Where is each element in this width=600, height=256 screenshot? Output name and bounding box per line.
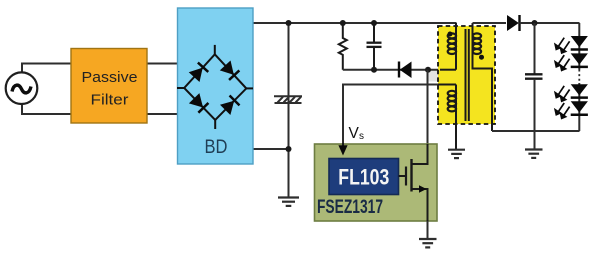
wire: passive filter to BD (bottom)	[147, 113, 178, 115]
LED3	[571, 84, 588, 97]
node: dot C top	[371, 20, 377, 26]
svg-text:Passive: Passive	[82, 70, 138, 86]
MOSFET gate bar	[405, 167, 407, 186]
earth ground below BD vertical	[278, 198, 299, 206]
node: junction dot BD return	[286, 146, 292, 152]
wire: passive filter to BD (top)	[147, 63, 178, 65]
snubber capacitor C1	[373, 23, 375, 42]
primary bottom lead inside box	[440, 69, 456, 71]
transformer core	[465, 29, 467, 121]
wire: snubber bottom rail to clamp diode to primary bottom	[343, 69, 456, 71]
node: dot C bottom	[371, 67, 377, 73]
svg-text:FSEZ1317: FSEZ1317	[317, 197, 383, 218]
FL103 sub-block	[329, 159, 399, 195]
wire: source to ground	[427, 221, 429, 239]
earth ground below aux winding	[448, 150, 465, 158]
MOSFET drain lead	[412, 144, 428, 164]
passive filter block	[71, 49, 147, 124]
node: dot R top	[340, 20, 346, 26]
LED1 light arrows	[555, 38, 569, 53]
svg-text:s: s	[359, 131, 364, 142]
bridge diamond	[184, 54, 246, 120]
bridge rectifier block BD	[178, 8, 254, 164]
wire: chassis/earth vertical from top rail	[288, 23, 290, 198]
bridge diode D4 (bottom-right, points NE)	[220, 95, 240, 115]
secondary winding spine + bottom lead	[473, 23, 493, 131]
wire: BD bottom return to vertical	[253, 148, 289, 150]
aux top lead inside box	[438, 84, 456, 86]
primary winding loops	[448, 33, 456, 54]
gray artifact patch near node SW	[427, 70, 441, 82]
dashed continuation between LED groups	[578, 70, 580, 84]
aux winding spine + ground lead	[455, 85, 457, 150]
LED2 light arrows	[555, 55, 569, 70]
svg-text:BD: BD	[205, 137, 228, 158]
bridge terminal stubs	[177, 45, 253, 129]
snubber resistor R1 lead + zigzag	[339, 23, 347, 70]
wire: AC source to passive filter (bottom)	[22, 104, 71, 114]
Vs arrowhead into controller	[342, 143, 344, 148]
chassis ground symbol	[274, 96, 302, 103]
output diode D6 (points right)	[507, 15, 519, 31]
node: dot at drain branch	[425, 67, 431, 73]
MOSFET source arrow	[419, 185, 427, 193]
wire: diode to LED string top	[520, 22, 580, 24]
LED4 light arrows	[555, 103, 569, 118]
secondary winding loops	[473, 33, 481, 54]
wire: Vs feed from aux winding	[343, 85, 456, 147]
controller block U1 FSEZ1317	[315, 144, 438, 221]
earth ground below MOSFET source	[419, 239, 437, 247]
node: dot output cap branch	[532, 20, 538, 26]
wire: AC source to passive filter (top)	[22, 64, 71, 73]
primary phase dot	[448, 32, 453, 37]
clamp diode D5 (points left)	[400, 62, 412, 79]
svg-text:Filter: Filter	[91, 93, 129, 109]
primary winding spine	[455, 23, 457, 70]
node: junction dot top rail at chassis branch	[286, 20, 292, 26]
earth ground below output cap	[525, 150, 543, 158]
MOSFET channel bar	[410, 159, 412, 192]
wire: secondary top to output diode	[473, 22, 507, 24]
bridge diode D2 (top-right, points SE)	[220, 60, 240, 80]
output capacitor C2	[534, 23, 536, 74]
wire: drain vertical	[427, 70, 429, 164]
LED1	[571, 36, 588, 49]
bridge diode D1 (top-left, points NE)	[189, 62, 209, 82]
LED string vertical wire	[578, 23, 580, 70]
MOSFET source lead	[412, 189, 428, 221]
aux winding loops	[448, 91, 456, 112]
LED4	[571, 101, 588, 114]
MOSFET Q1 gate lead	[399, 175, 407, 177]
svg-text:FL103: FL103	[338, 165, 389, 190]
svg-text:V: V	[349, 125, 360, 142]
bridge diode D3 (bottom-left, points SE)	[189, 93, 209, 113]
wire: secondary return bottom rail	[492, 130, 580, 132]
secondary phase dot	[479, 55, 484, 60]
wire: BD output top rail to transformer primary	[253, 22, 457, 24]
transformer T1 box (dashed)	[438, 26, 495, 124]
LED3 light arrows	[555, 86, 569, 101]
AC source V1	[6, 72, 38, 104]
LED2	[571, 53, 588, 66]
